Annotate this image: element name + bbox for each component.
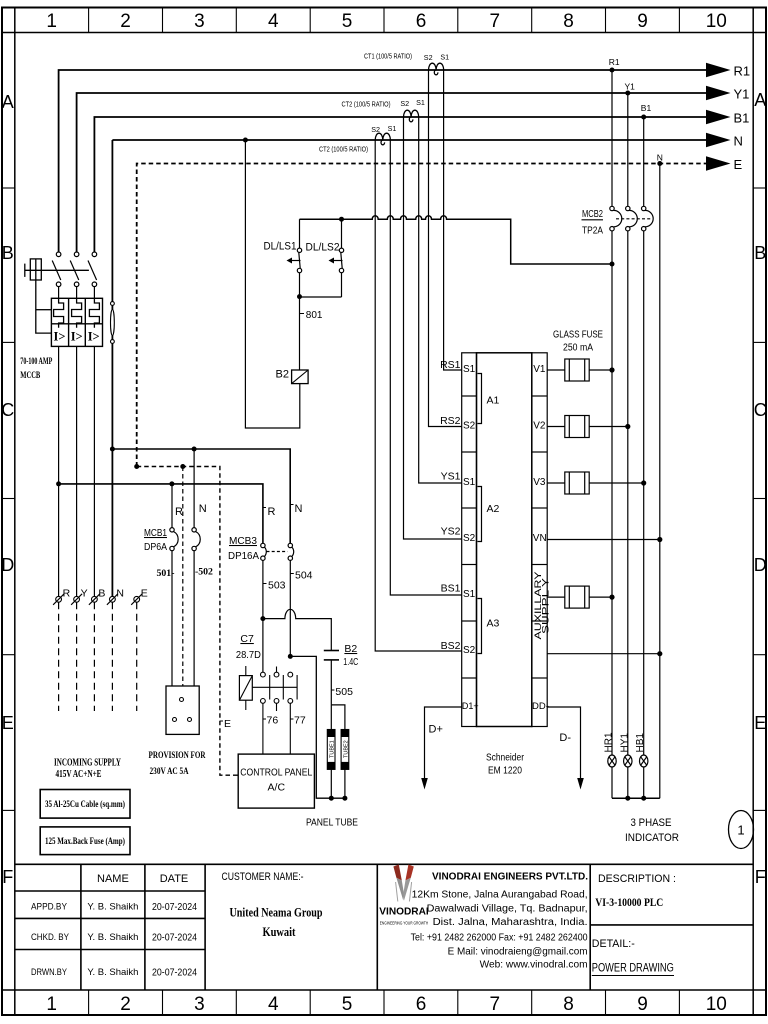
arrow D- [577,778,584,790]
wire control bus with hops over CT wires [300,216,613,264]
breaker MCCB top contacts [52,252,96,298]
svg-text:S1: S1 [463,477,476,488]
node B1 tap [641,115,646,120]
svg-text:E: E [2,713,14,733]
svg-text:A2: A2 [487,503,500,515]
meter terminal pin labels right [533,364,547,544]
svg-text:1: 1 [46,11,57,32]
svg-text:B1: B1 [641,103,652,113]
svg-text:I>: I> [54,330,66,344]
note box fuse [40,827,130,855]
svg-text:VI-3-10000 PLC: VI-3-10000 PLC [595,895,663,909]
fuse F3 (V3) [547,472,644,494]
wire 801 down to B2 coil [299,297,301,370]
label 76 [263,718,266,720]
terminal circle R [53,594,64,605]
svg-text:503: 503 [268,580,286,592]
svg-text:DL/LS2: DL/LS2 [306,242,340,254]
wire CT1-S1 to RS1 [444,70,462,370]
svg-text:7: 7 [490,994,501,1015]
svg-text:801: 801 [306,310,323,321]
svg-text:501-: 501- [157,568,175,579]
svg-text:3: 3 [194,994,205,1015]
svg-text:RS2: RS2 [440,415,461,427]
svg-text:8: 8 [563,994,574,1015]
lamp HR1 [608,755,616,798]
node R1 tap [610,68,615,73]
svg-text:YS2: YS2 [441,526,461,538]
breaker MCB1 pole N [192,449,200,686]
svg-text:6: 6 [416,11,427,32]
svg-text:C: C [754,400,767,420]
svg-text:ENGINEERING YOUR GROWTH: ENGINEERING YOUR GROWTH [380,921,429,927]
svg-text:D: D [1,555,14,575]
row letters right [754,90,767,887]
svg-text:E: E [224,718,231,730]
node Y1 tap [625,91,630,96]
svg-text:A3: A3 [487,618,500,630]
svg-text:Web: www.vinodral.com: Web: www.vinodral.com [480,960,588,971]
bracket A2 [478,487,482,542]
svg-text:F: F [755,867,766,887]
svg-text:DETAIL:-: DETAIL:- [592,938,635,950]
node DL/LS2 top junction [339,217,344,222]
svg-text:N: N [295,503,303,515]
label E at control panel [220,720,223,722]
wire tubes to return bus [330,769,332,798]
label 505 [331,689,334,691]
wire N vertical drop [111,140,113,597]
svg-text:VINODRAI: VINODRAI [379,905,429,917]
svg-text:MCB2: MCB2 [582,208,603,220]
CT1 coil [429,63,444,75]
svg-text:A: A [2,92,14,112]
svg-text:INCOMING SUPPLY: INCOMING SUPPLY [54,758,122,769]
svg-text:S2: S2 [463,421,476,432]
svg-text:R1: R1 [609,57,620,67]
MCCB trip unit box [51,298,102,346]
svg-text:B2: B2 [344,643,357,655]
svg-text:PANEL TUBE: PANEL TUBE [306,817,358,829]
wire indicator common bus [612,797,660,799]
svg-text:CT2 (100/5 RATIO): CT2 (100/5 RATIO) [342,99,391,108]
svg-text:R: R [268,506,276,518]
label 801 [300,313,305,315]
svg-text:I>: I> [71,330,83,344]
svg-text:415V AC+N+E: 415V AC+N+E [56,769,102,780]
wire N indicator line [659,164,661,799]
svg-text:B1: B1 [734,111,750,126]
svg-text:D+: D+ [429,724,443,736]
wire tube split [331,705,345,730]
svg-text:V1: V1 [533,364,546,375]
terminal circle E [131,594,142,605]
wire bus Y1 [77,93,706,252]
wire VN [547,539,660,541]
svg-text:Y1: Y1 [625,82,636,92]
label R pole [263,507,266,509]
svg-text:6: 6 [416,994,427,1015]
terminal circle N [107,594,118,605]
svg-text:Schneider: Schneider [486,752,524,764]
svg-text:PROVISION FOR: PROVISION FOR [149,751,206,761]
wire CT2-S1 to YS1 [419,117,462,483]
thermal element pole 1 [54,298,64,328]
svg-text:12Km Stone, Jalna Aurangabad R: 12Km Stone, Jalna Aurangabad Road, [412,890,588,901]
svg-text:CHKD. BY: CHKD. BY [31,932,70,943]
wire CT2-S2 to YS2 [404,117,462,539]
svg-text:R: R [175,506,183,518]
svg-text:GLASS FUSE: GLASS FUSE [553,330,603,341]
node N-bus junction for relay return [243,138,248,143]
svg-text:MCB1: MCB1 [144,527,167,539]
svg-text:4: 4 [268,11,279,32]
wire CT3-S2 to BS2 [375,140,462,651]
thermal element pole 2 [72,298,82,328]
svg-text:70-100 AMP: 70-100 AMP [20,357,52,367]
svg-text:B: B [2,243,14,263]
wires into trip box [58,287,60,299]
svg-text:DD-: DD- [532,701,549,712]
svg-text:20-07-2024: 20-07-2024 [152,933,197,944]
svg-text:8: 8 [563,11,574,32]
svg-text:YS1: YS1 [441,471,461,483]
svg-text:N: N [199,503,207,515]
svg-text:DRWN.BY: DRWN.BY [31,967,68,978]
CT3 coil [375,133,390,145]
incoming cable dashed tails [59,602,137,711]
breaker MCB3 pole R [261,543,267,672]
node N tap on E line [657,161,662,166]
note box cable [40,790,130,819]
side band dividers [2,188,766,810]
svg-text:N: N [116,588,124,600]
wire R phase down [58,346,60,596]
svg-text:20-07-2024: 20-07-2024 [152,902,197,913]
svg-text:MCCB: MCCB [20,371,40,381]
contact 3 (77) [288,672,297,754]
wire bus B1 [94,117,706,252]
fuse F4 (aux supply) [547,586,612,608]
svg-text:77: 77 [294,715,306,727]
svg-text:2: 2 [120,11,131,32]
svg-text:9: 9 [637,994,648,1015]
svg-text:Y1: Y1 [734,87,750,102]
svg-text:5: 5 [342,994,353,1015]
contact linkage bar [252,686,297,688]
arrow Y1 [706,86,731,100]
svg-text:S1: S1 [463,364,476,375]
node 503 branch [260,616,265,621]
svg-text:S2: S2 [400,99,409,108]
svg-text:B: B [754,243,766,263]
wire DD- output [547,707,580,779]
svg-text:Dawalwadi Village, Tq. Badnapu: Dawalwadi Village, Tq. Badnapur, [427,904,588,915]
wire bus E (dashed) [137,164,706,467]
svg-text:1: 1 [46,994,57,1015]
svg-text:Y. B. Shaikh: Y. B. Shaikh [87,932,138,943]
MCB2 dashed tie [616,218,652,220]
switch DL/LS1 [292,219,302,296]
bottom contacts [56,282,61,287]
svg-text:504: 504 [295,570,313,582]
svg-text:TP2A: TP2A [582,225,603,237]
svg-text:VN: VN [533,533,547,544]
svg-text:N: N [657,152,663,162]
terminal circle B [89,594,100,605]
svg-text:V3: V3 [533,477,546,488]
svg-text:R1: R1 [734,64,751,79]
svg-text:C: C [1,400,14,420]
relay coil C7 [239,676,252,701]
wire bus R1 [59,70,706,252]
svg-text:MCB3: MCB3 [229,535,257,547]
bracket A3 [478,599,482,654]
svg-text:POWER DRAWING: POWER DRAWING [592,963,674,975]
breaker MCB2 pole B [642,117,654,755]
svg-text:10: 10 [706,994,727,1015]
sheet number balloon [729,811,754,849]
meter body [477,353,532,727]
svg-text:I>: I> [88,330,100,344]
svg-text:HR1: HR1 [604,732,615,752]
svg-text:TUBE2: TUBE2 [343,740,349,758]
svg-text:N: N [734,134,743,149]
label 504 [290,573,294,575]
svg-text:D-: D- [559,732,571,744]
contact 1 (76) [261,672,270,754]
label 503 [263,583,267,585]
socket outlet box [166,686,199,734]
svg-text:Y. B. Shaikh: Y. B. Shaikh [87,967,138,978]
breaker MCB2 pole Y [626,93,638,755]
svg-text:250 mA: 250 mA [563,343,593,354]
wire N distribution [112,449,290,543]
Vinodrai logo [393,865,413,902]
svg-text:DESCRIPTION :: DESCRIPTION : [598,873,676,885]
svg-text:Y. B. Shaikh: Y. B. Shaikh [87,902,138,913]
wire bus N [112,139,706,141]
svg-text:Kuwait: Kuwait [263,925,297,939]
svg-text:NAME: NAME [97,873,129,885]
svg-text:S2: S2 [463,533,476,544]
bottom ruler dividers [89,990,680,1015]
MCB3 dashed tie [267,551,288,553]
svg-text:D1+: D1+ [462,701,479,711]
arrow B1 [706,110,731,124]
switch DL/LS2 [334,219,344,297]
tube TUBE2 [341,730,349,770]
strip dividers [462,396,548,678]
svg-text:HB1: HB1 [635,733,646,753]
svg-text:APPD.BY: APPD.BY [31,902,68,913]
svg-text:10: 10 [706,11,727,32]
meter right terminal strip [532,353,547,727]
top ruler dividers [89,8,680,33]
meter left terminal strip [462,353,477,727]
svg-text:CONTROL PANEL: CONTROL PANEL [240,767,312,779]
svg-text:EM 1220: EM 1220 [488,765,522,777]
wire tube return [290,656,345,798]
breaker MCB1 pole R [170,484,178,686]
svg-text:INDICATOR: INDICATOR [625,832,679,844]
svg-text:HY1: HY1 [619,733,630,753]
svg-text:76: 76 [267,715,279,727]
svg-text:-502: -502 [195,567,213,578]
ruler numbers bottom [46,994,726,1015]
svg-text:35 Al-25Cu Cable (sq.mm): 35 Al-25Cu Cable (sq.mm) [45,799,125,809]
svg-text:V2: V2 [533,421,546,432]
svg-text:5: 5 [342,11,353,32]
svg-text:E: E [734,157,743,172]
svg-text:F: F [2,867,13,887]
svg-text:20-07-2024: 20-07-2024 [152,968,197,979]
svg-text:CT2 (100/5 RATIO): CT2 (100/5 RATIO) [319,145,368,154]
wire E dashed drop to socket [182,467,184,687]
svg-text:2: 2 [120,994,131,1015]
node 801 junction [297,294,302,299]
svg-text:E: E [141,588,148,600]
svg-text:D: D [754,555,767,575]
CT2 coil [404,110,419,122]
svg-text:Y: Y [81,588,88,600]
svg-text:R: R [63,588,71,600]
svg-text:Tel: +91 2482 262000 Fax: +91: Tel: +91 2482 262000 Fax: +91 2482 26240… [411,933,588,944]
wire Y phase down [76,346,78,596]
bracket A1 [478,374,482,424]
node N to tube-return junction [288,654,293,659]
wire CT1-S2 to RS2 [429,70,462,427]
lamp HY1 [624,755,632,798]
svg-text:DP6A: DP6A [144,541,167,553]
svg-text:C7: C7 [240,633,254,645]
svg-text:TUBE1: TUBE1 [330,740,336,758]
wire B2 return to N bus [245,140,299,428]
svg-text:VINODRAI ENGINEERS PVT.LTD.: VINODRAI ENGINEERS PVT.LTD. [432,871,588,883]
svg-text:CT1 (100/5 RATIO): CT1 (100/5 RATIO) [364,52,412,61]
company address [411,890,588,971]
svg-text:1: 1 [737,823,744,838]
svg-text:BS1: BS1 [441,583,461,595]
fuse F2 (V2) [547,416,628,438]
svg-text:DL/LS1: DL/LS1 [264,241,297,253]
wire aux neutral [547,653,660,655]
label 77 [290,718,293,720]
ruler numbers top [46,11,726,32]
breaker MCB3 pole N [288,543,294,654]
svg-text:S1: S1 [388,124,397,133]
svg-text:3: 3 [194,11,205,32]
MCCB tie bar + actuator [25,259,89,333]
svg-text:125 Max.Back Fuse (Amp): 125 Max.Back Fuse (Amp) [45,836,125,846]
control panel box [238,754,314,808]
svg-text:1.4C: 1.4C [343,656,358,668]
svg-text:S1: S1 [440,53,449,62]
wire D1+ output [425,707,462,779]
wire E distribution (dashed) [137,467,239,776]
svg-text:505: 505 [335,686,353,698]
fuse F1 (V1) [547,359,612,381]
meter terminal pin labels left [463,364,476,656]
svg-text:E: E [754,713,766,733]
svg-text:S1: S1 [416,98,425,107]
arrow E [706,156,731,170]
arrow R1 [706,63,731,77]
svg-text:230V AC 5A: 230V AC 5A [150,767,189,777]
wire to capacitor B2 [263,609,331,650]
wire R distribution [59,484,263,543]
svg-text:9: 9 [637,11,648,32]
svg-text:B: B [98,588,105,600]
wire B phase down [93,346,95,596]
blades [52,261,61,281]
svg-text:A/C: A/C [268,782,286,794]
node control bus to R1 vertical [610,262,615,267]
contact 2 (spare) [274,667,283,712]
svg-text:B2: B2 [276,369,289,381]
svg-text:BS2: BS2 [441,640,461,652]
wire DL/LS bottom link [300,296,342,298]
terminal circle Y [71,594,82,605]
lamp HB1 [640,755,648,798]
svg-text:DATE: DATE [160,873,189,885]
svg-text:3 PHASE: 3 PHASE [631,817,672,829]
svg-text:S1: S1 [463,589,476,600]
row letters left [1,92,14,887]
svg-text:A: A [754,90,766,110]
svg-text:Dist. Jalna, Maharashtra, Indi: Dist. Jalna, Maharashtra, India. [433,917,588,928]
arrow N [706,133,731,147]
breaker MCB2 pole R [610,70,622,755]
arrow D+ [421,778,428,790]
svg-text:7: 7 [490,11,501,32]
svg-text:CUSTOMER NAME:-: CUSTOMER NAME:- [222,871,304,883]
svg-text:SUPPL Y: SUPPL Y [541,577,552,634]
svg-text:E Mail: vinodraieng@gmail.com: E Mail: vinodraieng@gmail.com [448,947,588,958]
wire CT3-S1 to BS1 [390,140,461,595]
tube TUBE1 [327,730,335,770]
neutral link on N wire [111,302,115,344]
svg-text:4: 4 [268,994,279,1015]
svg-text:United Neama Group: United Neama Group [230,906,323,920]
svg-text:S2: S2 [463,645,476,656]
svg-text:S2: S2 [424,53,433,62]
svg-text:28.7D: 28.7D [236,649,261,661]
svg-text:A1: A1 [487,395,500,407]
thermal element pole 3 [89,298,99,328]
svg-text:DP16A: DP16A [228,550,259,562]
label N pole [290,504,293,506]
capacitor B2 1.4C [324,650,339,652]
relay coil B2 [292,370,309,384]
svg-text:RS1: RS1 [440,359,461,371]
